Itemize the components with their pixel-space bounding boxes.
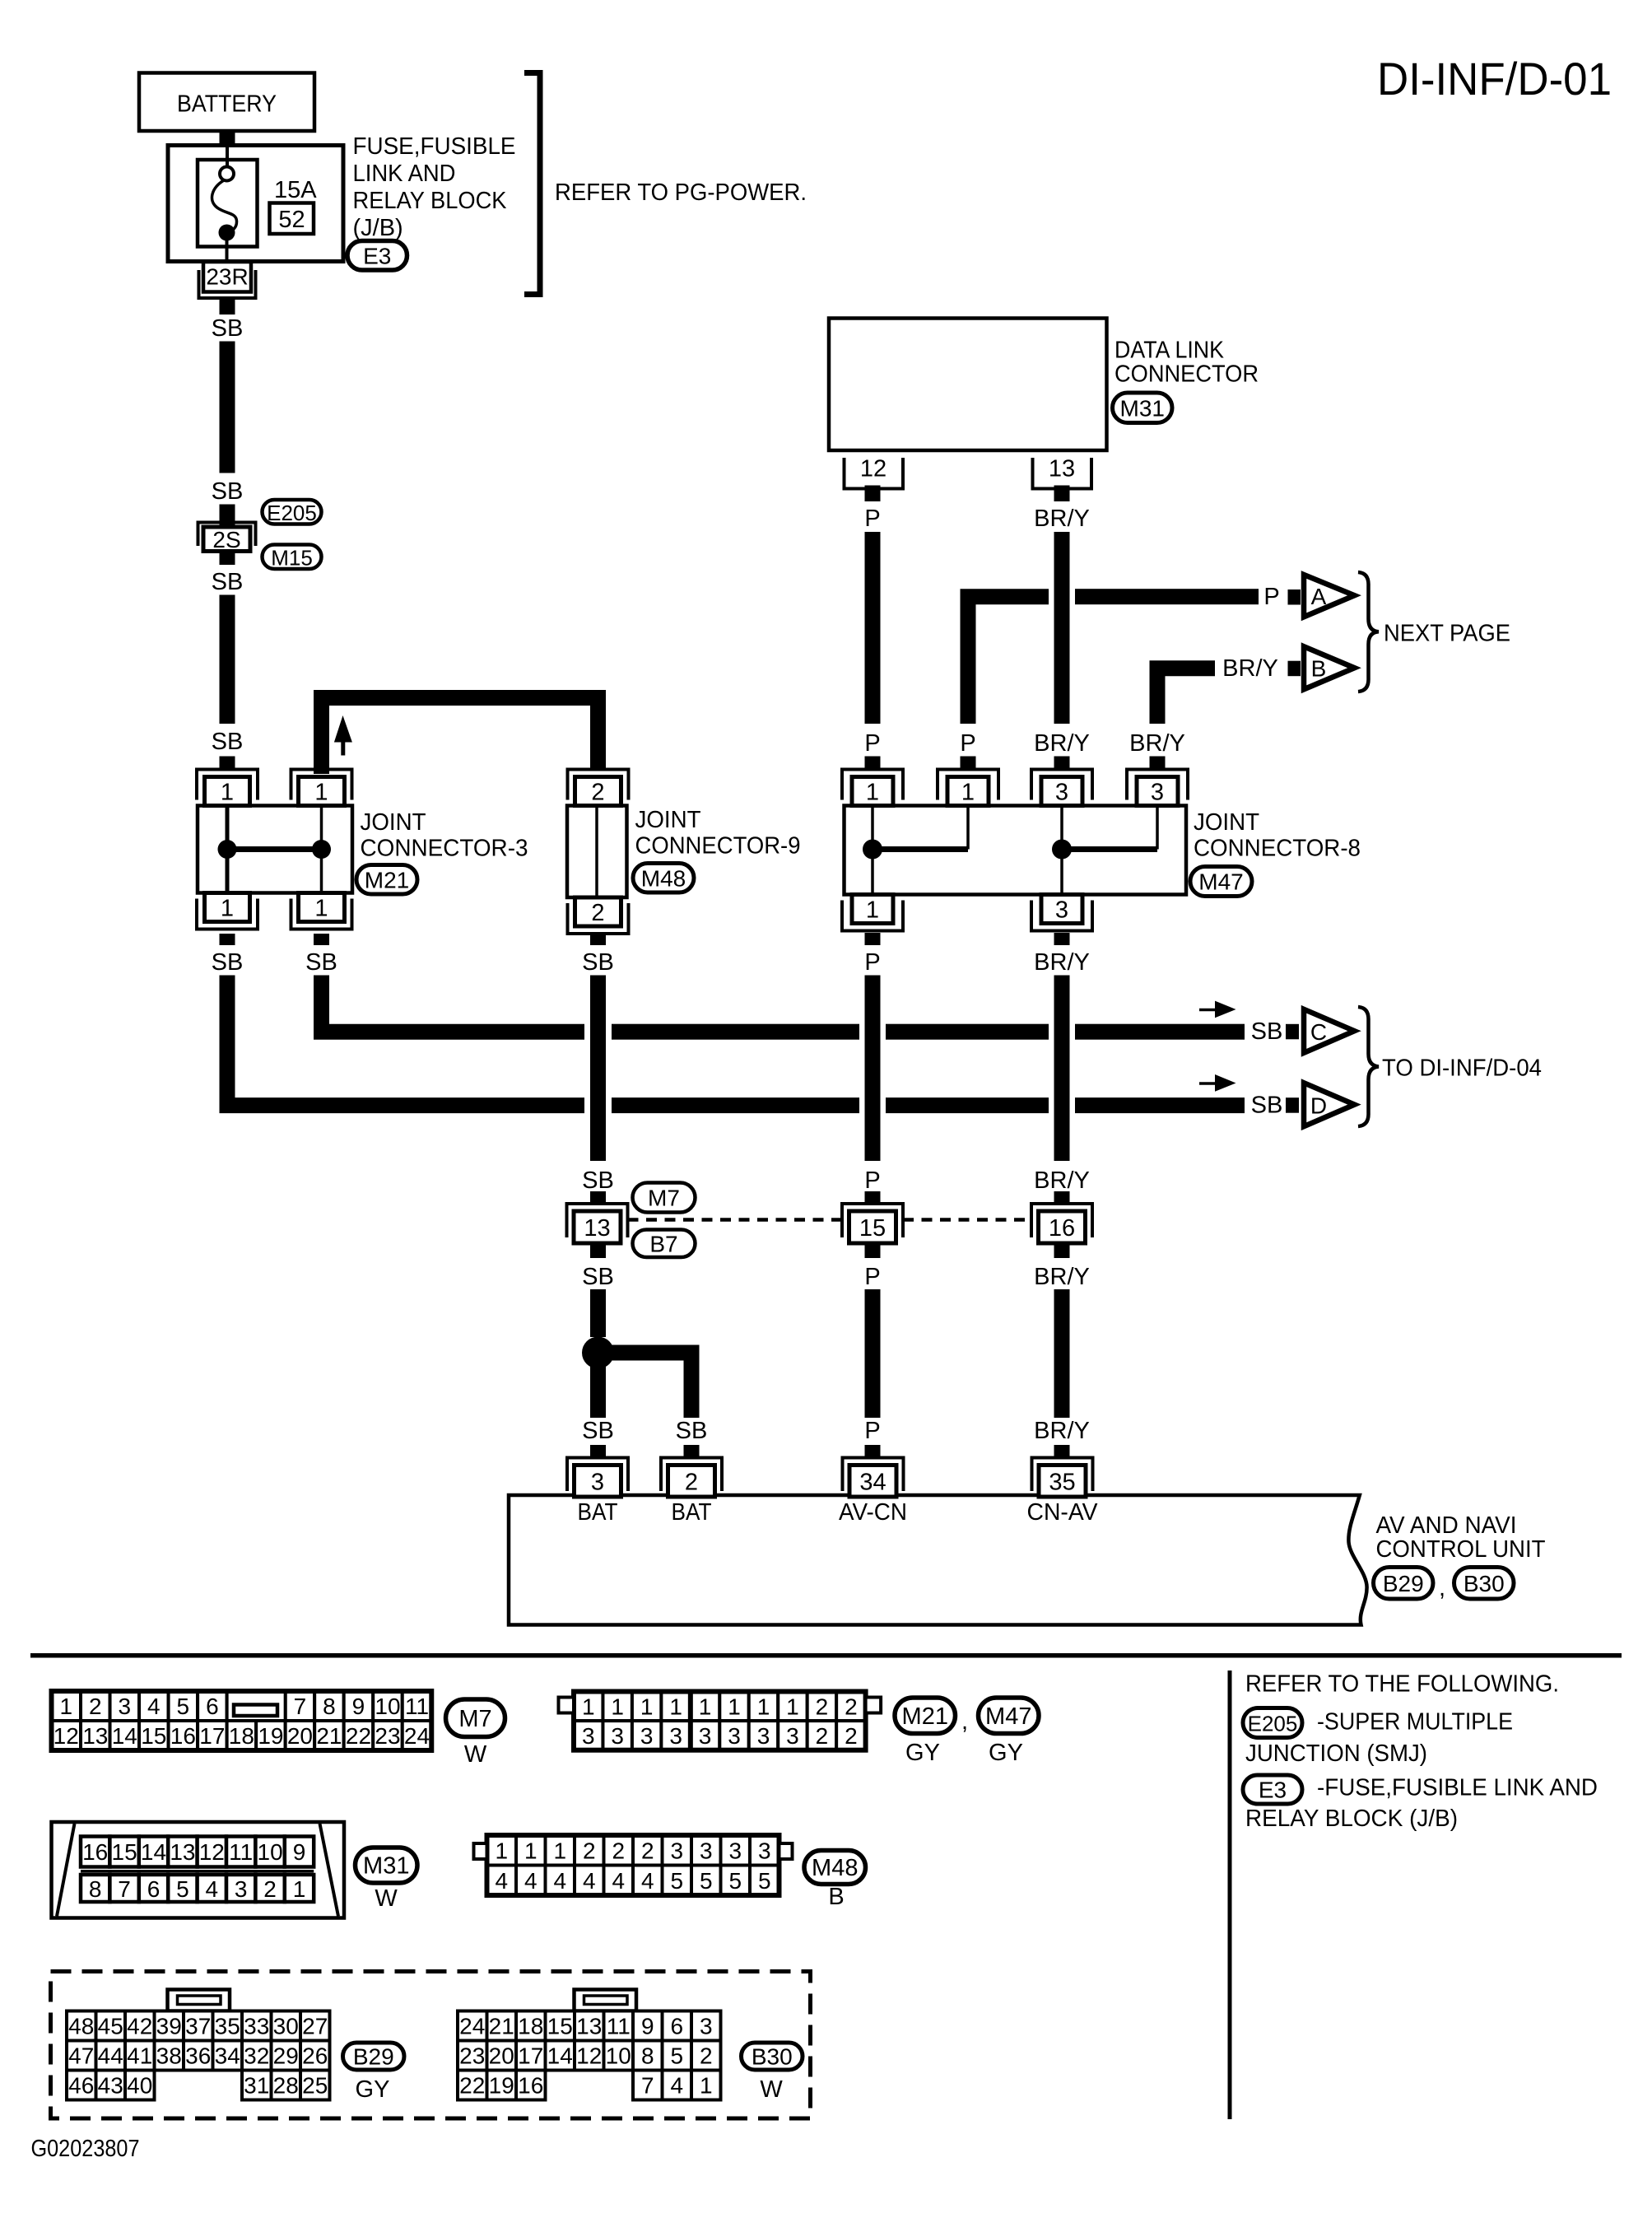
pin 2 AV unit [661,1458,722,1498]
svg-text:46: 46 [68,2073,94,2099]
svg-text:SB: SB [582,1418,614,1444]
pin 2 top M48 [568,770,629,806]
svg-text:M48: M48 [812,1855,858,1881]
svg-text:BATTERY: BATTERY [177,91,277,118]
svg-text:32: 32 [244,2043,269,2069]
next page arrow B [1304,646,1355,689]
svg-text:8: 8 [323,1694,336,1719]
pin 3 bottom M47 [1031,895,1092,931]
pin 3 top M47 [1031,770,1092,806]
svg-text:12: 12 [860,456,886,482]
pin 15 M7/B7 [842,1204,903,1243]
svg-text:4: 4 [495,1868,508,1894]
svg-text:23: 23 [459,2043,485,2069]
svg-text:9: 9 [293,1839,306,1865]
wire P stub into M47 pin 1 [865,757,881,771]
pin 23R [199,262,256,298]
svg-text:SB: SB [212,949,244,976]
figure number [31,2136,140,2162]
label P above M47 pin 2 [960,730,975,757]
svg-text:36: 36 [185,2043,211,2069]
svg-text:10: 10 [258,1839,283,1865]
label BR/Y [1034,1264,1090,1290]
svg-text:1: 1 [757,1694,770,1719]
svg-text:C: C [1310,1019,1327,1045]
svg-text:29: 29 [273,2043,299,2069]
svg-text:BAT: BAT [578,1499,618,1526]
next page arrow A [1304,575,1355,617]
svg-text:6: 6 [147,1876,161,1902]
svg-text:REFER TO PG-POWER.: REFER TO PG-POWER. [555,179,807,206]
svg-text:41: 41 [127,2043,152,2069]
svg-text:BR/Y: BR/Y [1034,949,1090,976]
svg-text:13: 13 [584,1215,610,1242]
wire SB branch to pin 2 [598,1353,692,1418]
label P [864,1264,880,1290]
svg-text:-SUPER MULTIPLE: -SUPER MULTIPLE [1317,1709,1513,1736]
svg-text:13: 13 [82,1723,108,1749]
svg-text:47: 47 [68,2043,94,2069]
wire BR/Y stub below DLC pin 13 [1054,486,1070,502]
svg-text:W: W [760,2076,783,2103]
divider line [1228,1670,1232,2119]
svg-text:P: P [864,1418,880,1444]
svg-text:SB: SB [582,949,614,976]
svg-text:E205: E205 [1248,1712,1298,1736]
label BAT pin3 [578,1499,618,1526]
svg-text:2: 2 [89,1694,102,1719]
svg-text:E3: E3 [363,243,391,268]
svg-text:B30: B30 [1464,1571,1505,1596]
svg-text:12: 12 [54,1723,79,1749]
svg-text:BR/Y: BR/Y [1034,1167,1090,1194]
svg-text:M15: M15 [271,545,313,570]
svg-text:AV AND NAVI: AV AND NAVI [1376,1512,1517,1539]
svg-text:1: 1 [221,896,234,922]
label BR/Y [1034,506,1090,532]
svg-text:40: 40 [127,2073,152,2099]
svg-text:20: 20 [287,1723,313,1749]
label P [864,1418,880,1444]
svg-text:3: 3 [757,1723,770,1749]
label BR/Y [1034,730,1090,757]
tab B [1288,661,1301,677]
label SB [582,1418,614,1444]
svg-text:GY: GY [356,2076,390,2103]
svg-text:M47: M47 [1198,869,1243,895]
svg-text:RELAY BLOCK: RELAY BLOCK [353,188,508,214]
svg-text:1: 1 [495,1838,508,1863]
svg-text:30: 30 [273,2014,299,2039]
svg-text:4: 4 [670,2073,683,2099]
svg-text:42: 42 [127,2014,152,2039]
internal bus M47 [863,806,1157,895]
wire BR/Y down to 16 [1054,976,1070,1162]
svg-text:5: 5 [670,1868,683,1894]
svg-text:CONNECTOR-8: CONNECTOR-8 [1194,836,1361,862]
wire SB into 2S [220,505,235,529]
svg-text:4: 4 [206,1876,219,1902]
wire SB to D [227,1097,1245,1113]
svg-text:M31: M31 [1120,395,1165,421]
wire SB down to C elbow [314,976,329,1032]
svg-text:B7: B7 [649,1231,677,1256]
svg-text:24: 24 [459,2014,485,2039]
svg-text:SB: SB [212,315,244,342]
svg-text:35: 35 [1049,1469,1075,1495]
refer to the following text [1245,1671,1559,1698]
connector E205 oval note [1243,1708,1302,1738]
svg-text:11: 11 [229,1839,253,1865]
svg-text:2: 2 [685,1469,698,1495]
svg-text:W: W [464,1741,487,1768]
label SB above 13 [582,1167,614,1194]
wire SB below junction [590,1353,606,1418]
svg-text:2: 2 [816,1723,829,1749]
svg-text:1: 1 [611,1694,624,1719]
svg-text:1: 1 [961,780,975,806]
connector E3 oval [347,241,407,271]
svg-text:FUSE,FUSIBLE: FUSE,FUSIBLE [353,133,516,160]
wire SB below M21 left [220,934,235,945]
label CN-AV [1027,1499,1099,1526]
brace next page [1358,572,1510,692]
svg-text:5: 5 [728,1868,742,1894]
label SB [212,729,244,755]
label joint connector-9 [635,807,801,860]
wire P stub below DLC pin 12 [865,486,881,502]
arrow D [1304,1083,1355,1126]
pin 13 DLC [1033,456,1092,489]
wire P stub into 15 [865,1191,881,1205]
label SB [582,1264,614,1290]
svg-text:13: 13 [170,1839,195,1865]
svg-text:27: 27 [302,2014,328,2039]
svg-text:37: 37 [185,2014,211,2039]
svg-text:P: P [864,730,880,757]
junction dot [582,1337,614,1369]
svg-text:CONNECTOR-3: CONNECTOR-3 [361,836,528,862]
fuse 15A 52 [198,146,317,263]
svg-text:CN-AV: CN-AV [1027,1499,1099,1526]
svg-text:P: P [960,730,975,757]
wire SB from 23R [220,298,235,315]
wire P to next page A [968,589,1259,724]
label AV-CN [839,1499,907,1526]
wire P down to M47 pin 1 [865,532,881,724]
svg-text:5: 5 [758,1868,771,1894]
label BAT pin2 [672,1499,712,1526]
svg-text:BR/Y: BR/Y [1222,655,1278,682]
comma [1439,1575,1445,1601]
svg-text:21: 21 [316,1723,342,1749]
svg-text:CONTROL UNIT: CONTROL UNIT [1376,1536,1546,1563]
svg-text:4: 4 [583,1868,596,1894]
wire SB down to 13 [590,976,606,1162]
svg-text:RELAY BLOCK (J/B): RELAY BLOCK (J/B) [1245,1806,1458,1832]
svg-text:A: A [1311,584,1327,609]
svg-text:31: 31 [244,2073,269,2099]
svg-text:22: 22 [346,1723,371,1749]
svg-text:8: 8 [89,1876,102,1902]
connector view B29 48-pin [67,1990,330,2100]
svg-text:5: 5 [670,2043,683,2069]
wire SB stub into 13 [590,1191,606,1205]
note SMJ [1245,1709,1513,1768]
pin 3 top second M47 [1127,770,1188,806]
label AV and NAVI control unit [1376,1512,1546,1563]
pin 1 bottom-right M21 [291,893,352,930]
wire SB [220,342,235,473]
svg-text:BR/Y: BR/Y [1034,506,1090,532]
connector M7 oval [633,1183,696,1213]
svg-text:3: 3 [670,1838,683,1863]
svg-text:23R: 23R [206,264,248,290]
svg-text:35: 35 [215,2014,240,2039]
label SB [212,569,244,595]
wire SB to junction [590,1289,606,1337]
dashed link 13-15-16 [628,1218,1032,1222]
joint connector-9 M48 body [567,806,627,898]
tab C [1286,1024,1299,1040]
connector B30 oval [1454,1568,1515,1600]
svg-text:M21: M21 [902,1703,948,1730]
svg-text:1: 1 [314,780,328,806]
svg-text:E3: E3 [1259,1778,1287,1803]
svg-text:SB: SB [212,569,244,595]
label P above 15 [864,1167,880,1194]
svg-text:3: 3 [591,1469,604,1495]
wire SB below M21 right [314,934,329,945]
pin 1 top second M47 [938,770,998,806]
svg-text:6: 6 [206,1694,219,1719]
svg-text:SB: SB [582,1167,614,1194]
svg-text:7: 7 [641,2073,654,2099]
note fuse block [1245,1775,1598,1833]
svg-text:8: 8 [641,2043,654,2069]
svg-text:M48: M48 [641,865,686,891]
pin 2 bottom M48 [568,897,629,934]
connector view M31 16-pin [52,1822,345,1918]
wire battery to fuse block [220,129,235,147]
battery [139,73,314,132]
svg-text:28: 28 [273,2073,299,2099]
label BR/Y above 16 [1034,1167,1090,1194]
svg-text:JOINT: JOINT [635,807,701,833]
svg-text:3: 3 [1151,780,1164,806]
svg-text:3: 3 [700,2014,713,2039]
svg-text:26: 26 [302,2043,328,2069]
svg-text:23: 23 [375,1723,400,1749]
svg-text:48: 48 [68,2014,94,2039]
wire P below 15 [865,1243,881,1258]
svg-text:W: W [375,1885,398,1912]
AV and NAVI control unit box [509,1495,1367,1625]
svg-text:2S: 2S [212,527,240,552]
label SB before C [1251,1018,1283,1045]
svg-text:5: 5 [177,1694,190,1719]
wire BR/Y stub into M47 pin 3 [1054,757,1070,771]
label SB [582,949,614,976]
label BR/Y [1034,949,1090,976]
svg-text:JOINT: JOINT [1194,809,1259,836]
wire SB to C [322,1024,1245,1040]
svg-text:2: 2 [641,1838,654,1863]
label SB [212,315,244,342]
svg-text:4: 4 [524,1868,537,1894]
svg-text:17: 17 [518,2043,543,2069]
pin 34 AV unit [843,1458,904,1498]
svg-text:33: 33 [244,2014,269,2039]
svg-text:3: 3 [700,1838,713,1863]
svg-text:15A: 15A [274,177,317,203]
svg-text:34: 34 [859,1469,886,1495]
svg-text:G02023807: G02023807 [31,2136,140,2162]
label SB before D [1251,1093,1283,1119]
svg-text:3: 3 [611,1723,624,1749]
svg-text:3: 3 [640,1723,654,1749]
svg-text:18: 18 [229,1723,254,1749]
label SB [305,949,337,976]
svg-text:3: 3 [786,1723,799,1749]
label BR/Y before B [1222,655,1278,682]
svg-text:17: 17 [199,1723,225,1749]
pin 1 bottom-left M21 [197,893,258,930]
svg-text:3: 3 [699,1723,712,1749]
svg-text:10: 10 [606,2043,631,2069]
svg-text:P: P [864,949,880,976]
svg-text:BAT: BAT [672,1499,712,1526]
svg-text:2: 2 [612,1838,625,1863]
svg-text:M47: M47 [985,1703,1031,1730]
svg-text:,: , [961,1708,968,1735]
svg-text:JUNCTION (SMJ): JUNCTION (SMJ) [1245,1740,1427,1767]
svg-text:1: 1 [669,1694,682,1719]
svg-text:1: 1 [582,1694,595,1719]
svg-text:11: 11 [607,2014,631,2039]
pin 2S SMJ [198,523,256,553]
label P [864,949,880,976]
svg-text:B29: B29 [353,2044,394,2070]
wire SB below M48 [590,933,606,945]
separator line [30,1653,1622,1658]
svg-text:18: 18 [518,2014,543,2039]
svg-text:,: , [1439,1575,1445,1601]
svg-text:BR/Y: BR/Y [1034,1418,1090,1444]
svg-text:SB: SB [212,478,244,505]
svg-text:SB: SB [1251,1018,1283,1045]
tab D [1286,1097,1299,1113]
label P [864,506,880,532]
arrow direction C [1199,1001,1236,1018]
wire SB down to D elbow [220,976,235,1107]
svg-text:7: 7 [294,1694,307,1719]
svg-text:44: 44 [98,2043,123,2069]
svg-text:3: 3 [728,1838,742,1863]
svg-text:14: 14 [547,2043,573,2069]
label SB [212,949,244,976]
svg-text:1: 1 [786,1694,799,1719]
svg-text:BR/Y: BR/Y [1034,730,1090,757]
svg-text:1: 1 [524,1838,537,1863]
svg-text:9: 9 [641,2014,654,2039]
svg-text:2: 2 [591,900,604,926]
connector view M7 24-pin [52,1691,432,1750]
svg-text:3: 3 [669,1723,682,1749]
label joint connector-8 [1194,809,1361,862]
svg-text:CONNECTOR-9: CONNECTOR-9 [635,833,801,860]
connector B30 oval view [742,2043,803,2103]
svg-text:12: 12 [199,1839,225,1865]
svg-text:1: 1 [314,896,328,922]
connector B29 oval [1374,1568,1434,1600]
svg-text:1: 1 [866,780,879,806]
wire SB stub into M21 pin 1 [220,757,235,771]
svg-text:3: 3 [728,1723,741,1749]
svg-text:BR/Y: BR/Y [1034,1264,1090,1290]
label BR/Y above M47 pin 4 [1129,730,1185,757]
connector B29 oval view [343,2043,405,2103]
wire SB down to M21 [220,595,235,725]
svg-text:P: P [864,1167,880,1194]
label P before A [1263,584,1279,610]
wire BR/Y stub into 16 [1054,1191,1070,1205]
svg-text:3: 3 [758,1838,771,1863]
svg-text:3: 3 [1055,897,1068,924]
svg-text:P: P [1263,584,1279,610]
svg-text:REFER TO THE FOLLOWING.: REFER TO THE FOLLOWING. [1245,1671,1559,1698]
svg-text:2: 2 [845,1723,858,1749]
svg-text:2: 2 [700,2043,713,2069]
wire P down [865,1289,881,1418]
svg-text:3: 3 [1055,780,1068,806]
svg-text:11: 11 [405,1694,429,1719]
svg-text:14: 14 [112,1723,137,1749]
svg-text:CONNECTOR: CONNECTOR [1115,361,1259,388]
arrow direction D [1199,1074,1236,1092]
svg-text:2: 2 [591,780,604,806]
wire P down to 15 [865,976,881,1162]
svg-text:3: 3 [582,1723,595,1749]
wire P below M47 [865,933,881,945]
svg-text:9: 9 [352,1694,365,1719]
svg-text:5: 5 [176,1876,189,1902]
svg-text:SB: SB [582,1264,614,1290]
wire link M21 pin1 to M48 pin2 [322,698,598,775]
svg-text:4: 4 [641,1868,654,1894]
joint connector-8 M47 body [845,806,1187,895]
connector M7 oval view [446,1699,505,1768]
svg-text:2: 2 [845,1694,858,1719]
svg-text:TO DI-INF/D-04: TO DI-INF/D-04 [1382,1055,1542,1082]
svg-text:2: 2 [816,1694,829,1719]
svg-text:SB: SB [305,949,337,976]
svg-text:GY: GY [905,1740,940,1766]
label SB [212,478,244,505]
svg-text:1: 1 [553,1838,566,1863]
wire SB stub into AV pin 2 [684,1445,700,1459]
svg-text:43: 43 [98,2073,123,2099]
label GY GY [905,1740,1023,1766]
svg-text:10: 10 [375,1694,400,1719]
svg-text:M7: M7 [648,1186,680,1211]
svg-text:4: 4 [612,1868,625,1894]
connector E205 oval [263,500,322,525]
svg-text:E205: E205 [267,501,317,525]
label fuse block [353,133,516,241]
svg-text:DI-INF/D-01: DI-INF/D-01 [1377,53,1612,105]
svg-text:52: 52 [278,207,305,233]
